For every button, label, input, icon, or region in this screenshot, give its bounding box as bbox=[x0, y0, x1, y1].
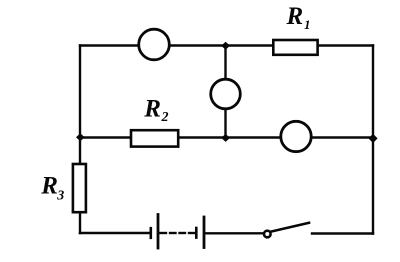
svg-text:2: 2 bbox=[161, 110, 169, 125]
svg-text:R: R bbox=[286, 3, 304, 30]
svg-text:R: R bbox=[40, 173, 58, 200]
svg-text:1: 1 bbox=[304, 17, 311, 32]
svg-text:3: 3 bbox=[56, 189, 64, 204]
svg-text:R: R bbox=[143, 95, 161, 122]
